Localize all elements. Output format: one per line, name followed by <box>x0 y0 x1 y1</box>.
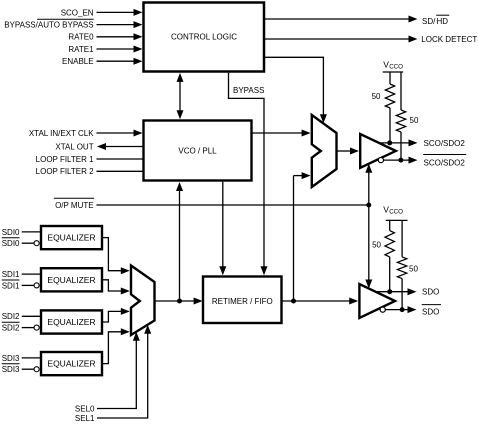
svg-text:SDI1: SDI1 <box>2 281 20 290</box>
svg-text:LOOP FILTER 2: LOOP FILTER 2 <box>36 167 94 176</box>
svg-text:50: 50 <box>372 92 381 101</box>
svg-text:SCO/SDO2: SCO/SDO2 <box>424 139 466 148</box>
svg-text:HD: HD <box>437 17 449 26</box>
svg-text:ENABLE: ENABLE <box>62 57 94 66</box>
svg-text:RETIMER / FIFO: RETIMER / FIFO <box>212 297 273 306</box>
svg-text:RATE1: RATE1 <box>68 45 94 54</box>
svg-text:LOCK DETECT: LOCK DETECT <box>421 35 477 44</box>
svg-text:SEL0: SEL0 <box>75 404 95 413</box>
svg-text:CCO: CCO <box>389 64 403 71</box>
svg-text:CONTROL LOGIC: CONTROL LOGIC <box>171 32 237 41</box>
svg-text:50: 50 <box>410 116 419 125</box>
svg-text:EQUALIZER: EQUALIZER <box>47 233 95 243</box>
svg-text:XTAL OUT: XTAL OUT <box>55 142 93 151</box>
svg-text:SDI3: SDI3 <box>2 365 20 374</box>
svg-text:SCO_EN: SCO_EN <box>61 8 94 17</box>
svg-text:50: 50 <box>409 264 418 273</box>
svg-text:SDO: SDO <box>422 308 439 317</box>
svg-text:SDI1: SDI1 <box>2 270 20 279</box>
svg-text:SEL1: SEL1 <box>75 414 95 423</box>
svg-text:EQUALIZER: EQUALIZER <box>47 275 95 285</box>
svg-text:EQUALIZER: EQUALIZER <box>47 317 95 327</box>
svg-text:EQUALIZER: EQUALIZER <box>47 359 95 369</box>
svg-text:O/P MUTE: O/P MUTE <box>55 201 94 210</box>
svg-text:BYPASS: BYPASS <box>233 86 264 95</box>
svg-text:XTAL IN/EXT CLK: XTAL IN/EXT CLK <box>29 129 94 138</box>
svg-text:BYPASS/AUTO BYPASS: BYPASS/AUTO BYPASS <box>4 21 93 30</box>
svg-text:CCO: CCO <box>389 209 403 216</box>
svg-text:50: 50 <box>372 241 381 250</box>
svg-text:SDI2: SDI2 <box>2 312 20 321</box>
svg-text:SDI0: SDI0 <box>2 228 20 237</box>
svg-text:LOOP FILTER 1: LOOP FILTER 1 <box>36 155 94 164</box>
svg-text:VCO / PLL: VCO / PLL <box>178 146 217 155</box>
svg-text:SD/: SD/ <box>422 17 436 26</box>
svg-text:SDO: SDO <box>422 288 439 297</box>
svg-text:SCO/SDO2: SCO/SDO2 <box>424 158 466 167</box>
svg-text:RATE0: RATE0 <box>68 33 94 42</box>
svg-text:SDI3: SDI3 <box>2 354 20 363</box>
svg-text:SDI0: SDI0 <box>2 239 20 248</box>
svg-text:SDI2: SDI2 <box>2 324 20 333</box>
